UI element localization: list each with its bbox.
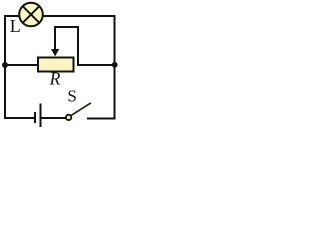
svg-text:L: L — [10, 16, 21, 36]
svg-text:S: S — [67, 87, 76, 106]
svg-text:R: R — [49, 68, 61, 88]
